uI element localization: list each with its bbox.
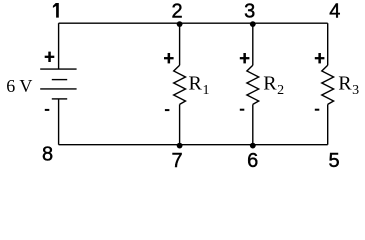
R2 minus polarity mark: [240, 109, 245, 111]
svg-text:4: 4: [329, 1, 340, 23]
node 7 junction dot: [177, 143, 183, 149]
svg-text:6 V: 6 V: [6, 76, 32, 96]
battery B1 plates (6 V source): [40, 69, 76, 99]
wire bottom rail from node 8 to node 5: [59, 144, 328, 146]
R1 plus polarity mark: [164, 53, 174, 63]
wire top rail from node 1 to node 4: [59, 22, 328, 24]
wire left side: node 1 down to battery top plate: [58, 23, 60, 69]
node 3 junction dot: [250, 21, 256, 27]
resistor R2 zigzag: [247, 65, 259, 104]
node 1 label: [53, 3, 59, 18]
wire node 2 down to R1: [179, 23, 181, 65]
wire R2 down to node 6: [252, 104, 254, 144]
svg-text:8: 8: [42, 143, 53, 165]
svg-text:7: 7: [172, 150, 183, 172]
wire left side: battery bottom to node 8 corner: [58, 99, 60, 145]
wire node 3 down to R2: [252, 23, 254, 65]
R3 plus polarity mark: [315, 53, 325, 63]
svg-text:3: 3: [244, 1, 255, 23]
battery plus polarity mark: [45, 52, 55, 62]
wire R1 down to node 7: [179, 104, 181, 144]
svg-text:6: 6: [247, 150, 258, 172]
battery minus polarity mark: [45, 109, 50, 111]
node 6 junction dot: [250, 143, 256, 149]
svg-text:5: 5: [329, 150, 340, 172]
resistor R1 zigzag: [174, 65, 186, 104]
svg-text:2: 2: [172, 1, 183, 23]
resistor R3 zigzag: [322, 65, 334, 104]
R1 minus polarity mark: [165, 109, 170, 111]
R2 plus polarity mark: [240, 53, 250, 63]
node 2 junction dot: [177, 21, 183, 27]
R3 minus polarity mark: [315, 109, 320, 111]
wire right side: node 4 down to R3: [327, 23, 329, 65]
wire right side: R3 down to node 5: [327, 104, 329, 144]
